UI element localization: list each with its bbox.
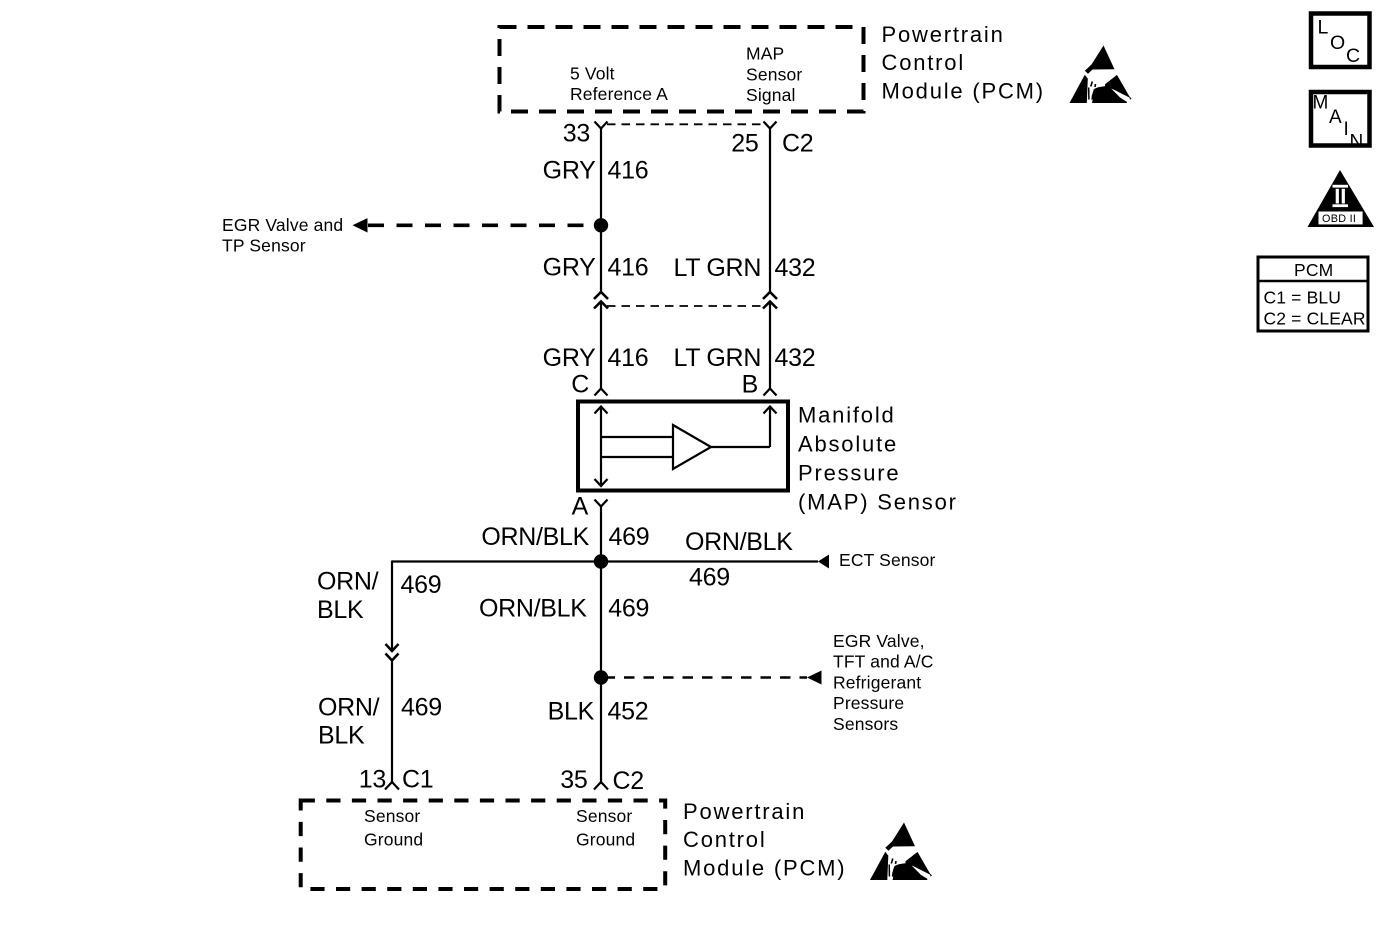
left branch wire ORN/BLK upper segment <box>391 561 393 651</box>
svg-text:LT GRN: LT GRN <box>674 344 762 372</box>
svg-text:Manifold: Manifold <box>798 402 896 427</box>
svg-text:Absolute: Absolute <box>798 431 898 456</box>
svg-text:C1: C1 <box>402 766 433 794</box>
label GRY 416 third <box>543 344 649 372</box>
svg-text:Control: Control <box>882 50 966 75</box>
labels ORN/ BLK upper-left <box>317 568 441 625</box>
svg-text:Signal: Signal <box>746 85 796 105</box>
Sensor Ground label right <box>576 806 635 849</box>
pin 33 connector fork <box>595 122 608 129</box>
svg-text:A: A <box>572 493 589 521</box>
svg-text:GRY: GRY <box>543 254 596 282</box>
EGR Valve and TP Sensor label <box>222 215 343 256</box>
svg-text:C: C <box>1346 45 1360 67</box>
Manifold Absolute Pressure (MAP) Sensor label <box>798 402 958 514</box>
svg-text:A: A <box>1329 107 1342 128</box>
svg-text:Ground: Ground <box>576 829 635 849</box>
svg-text:Sensor: Sensor <box>746 64 802 84</box>
svg-text:C2 = CLEAR: C2 = CLEAR <box>1264 309 1366 329</box>
svg-text:MAP: MAP <box>746 44 784 64</box>
svg-text:469: 469 <box>689 563 730 591</box>
MAP sensor box <box>578 402 788 491</box>
label GRY 416 second <box>543 254 649 282</box>
pin C fork <box>595 389 608 396</box>
svg-text:BLK: BLK <box>548 698 595 726</box>
svg-text:ORN/: ORN/ <box>317 568 379 596</box>
svg-text:Reference A: Reference A <box>570 84 668 104</box>
label BLK 452 <box>548 698 649 726</box>
label ORN/BLK 469 below pin A <box>481 523 649 551</box>
label GRY 416 upper <box>543 156 649 184</box>
svg-text:416: 416 <box>608 156 649 184</box>
svg-text:O: O <box>1330 32 1345 54</box>
svg-text:I: I <box>1344 119 1349 140</box>
label ORN/BLK 469 center <box>479 594 649 622</box>
pin A fork <box>595 500 608 507</box>
svg-text:PCM: PCM <box>1294 260 1333 280</box>
svg-text:Control: Control <box>683 827 767 852</box>
dashed connector link mid <box>607 305 764 307</box>
labels ORN/ BLK lower-left <box>318 694 442 750</box>
arrow to EGR Valve and TP Sensor <box>353 218 368 232</box>
svg-text:Pressure: Pressure <box>833 693 904 713</box>
svg-text:L: L <box>1318 17 1329 39</box>
svg-text:C1 = BLU: C1 = BLU <box>1264 288 1342 308</box>
pin 35 fork <box>594 782 608 790</box>
pin 13 fork <box>385 782 399 790</box>
MAP sensor internal symbol <box>595 407 777 487</box>
svg-text:Powertrain: Powertrain <box>882 22 1005 47</box>
junction dot splice BLK 452 <box>594 670 608 684</box>
Sensor Ground label left <box>364 806 423 849</box>
pin B fork <box>764 389 777 396</box>
svg-text:M: M <box>1313 93 1329 114</box>
svg-text:Module (PCM): Module (PCM) <box>882 78 1045 103</box>
svg-text:452: 452 <box>608 698 649 726</box>
EGR Valve TFT and AC Refrigerant Pressure Sensors label <box>833 631 934 734</box>
5 Volt Reference A label <box>570 64 668 104</box>
label LT GRN 432 third <box>674 344 816 372</box>
svg-text:C: C <box>571 371 589 399</box>
svg-text:469: 469 <box>401 694 442 722</box>
svg-text:33: 33 <box>563 120 590 148</box>
svg-text:432: 432 <box>775 254 816 282</box>
in-line connector on LT GRN wire <box>763 292 777 309</box>
pin 25 connector fork <box>764 122 777 129</box>
svg-text:416: 416 <box>608 344 649 372</box>
left branch wire ORN/BLK lower segment <box>391 661 393 783</box>
svg-text:432: 432 <box>775 344 816 372</box>
dashed branch wire to EGR Valve and TP Sensor <box>368 224 594 228</box>
svg-text:ORN/BLK: ORN/BLK <box>479 594 587 622</box>
in-line connector on left branch <box>386 644 399 661</box>
svg-text:5 Volt: 5 Volt <box>570 64 615 84</box>
svg-text:GRY: GRY <box>543 344 596 372</box>
svg-text:N: N <box>1350 132 1364 153</box>
svg-text:EGR Valve and: EGR Valve and <box>222 215 343 235</box>
svg-text:ORN/: ORN/ <box>318 694 380 722</box>
wire LT GRN 432 lower segment <box>769 302 771 389</box>
OBD II symbol <box>1308 170 1375 227</box>
svg-text:Sensor: Sensor <box>364 806 420 826</box>
svg-text:Sensor: Sensor <box>576 806 632 826</box>
svg-text:Module (PCM): Module (PCM) <box>683 855 846 880</box>
arrow to EGR TFT AC sensors <box>807 671 822 685</box>
junction dot splice on GRY 416 <box>594 218 608 232</box>
svg-text:35: 35 <box>560 766 587 794</box>
MAIN code box <box>1311 92 1370 153</box>
wire ORN/BLK 469 from pin A <box>600 507 602 785</box>
svg-text:13: 13 <box>359 766 386 794</box>
svg-text:Ground: Ground <box>364 829 423 849</box>
svg-text:469: 469 <box>608 594 649 622</box>
Powertrain Control Module (PCM) label top <box>882 22 1045 103</box>
dashed connector link top <box>607 123 764 125</box>
MAP Sensor Signal label <box>746 44 802 105</box>
svg-text:TFT and A/C: TFT and A/C <box>833 652 934 672</box>
svg-text:GRY: GRY <box>543 156 596 184</box>
dashed branch wire to EGR TFT AC sensors <box>608 676 807 679</box>
PCM bottom dashed box <box>301 801 666 890</box>
svg-text:Refrigerant: Refrigerant <box>833 672 921 692</box>
wire GRY 416 lower segment <box>600 302 602 389</box>
svg-text:Powertrain: Powertrain <box>683 799 806 824</box>
svg-text:C2: C2 <box>782 130 813 158</box>
svg-text:Sensors: Sensors <box>833 714 898 734</box>
PCM connector legend box <box>1258 257 1368 331</box>
svg-text:EGR Valve,: EGR Valve, <box>833 631 925 651</box>
svg-text:BLK: BLK <box>318 722 365 750</box>
ESD symbol bottom <box>870 823 932 881</box>
svg-text:469: 469 <box>609 523 650 551</box>
svg-text:25: 25 <box>731 130 758 158</box>
label LT GRN 432 second <box>674 254 816 282</box>
in-line connector on GRY wire <box>594 292 608 309</box>
svg-text:BLK: BLK <box>317 596 364 624</box>
arrow to ECT Sensor <box>818 555 829 569</box>
svg-text:416: 416 <box>608 254 649 282</box>
svg-text:Pressure: Pressure <box>798 460 900 485</box>
svg-text:OBD II: OBD II <box>1322 213 1356 225</box>
svg-text:TP Sensor: TP Sensor <box>222 236 306 256</box>
svg-text:ORN/BLK: ORN/BLK <box>685 528 793 556</box>
svg-text:LT GRN: LT GRN <box>674 254 762 282</box>
svg-text:ORN/BLK: ORN/BLK <box>481 523 589 551</box>
Powertrain Control Module (PCM) label bottom <box>683 799 846 880</box>
svg-text:469: 469 <box>401 571 442 599</box>
PCM top dashed box <box>500 27 864 112</box>
ESD symbol top <box>1070 46 1132 104</box>
svg-text:C2: C2 <box>613 767 644 795</box>
LOC code box <box>1311 14 1370 68</box>
wire GRY 416 upper segment <box>600 129 602 292</box>
svg-text:(MAP) Sensor: (MAP) Sensor <box>798 489 958 514</box>
wire LT GRN 432 upper segment <box>769 129 771 292</box>
junction dot splice ORN/BLK <box>594 554 608 568</box>
svg-text:B: B <box>742 371 758 399</box>
svg-text:ECT Sensor: ECT Sensor <box>839 550 936 570</box>
wire ORN/BLK 469 horizontal to ECT sensor <box>392 560 818 562</box>
